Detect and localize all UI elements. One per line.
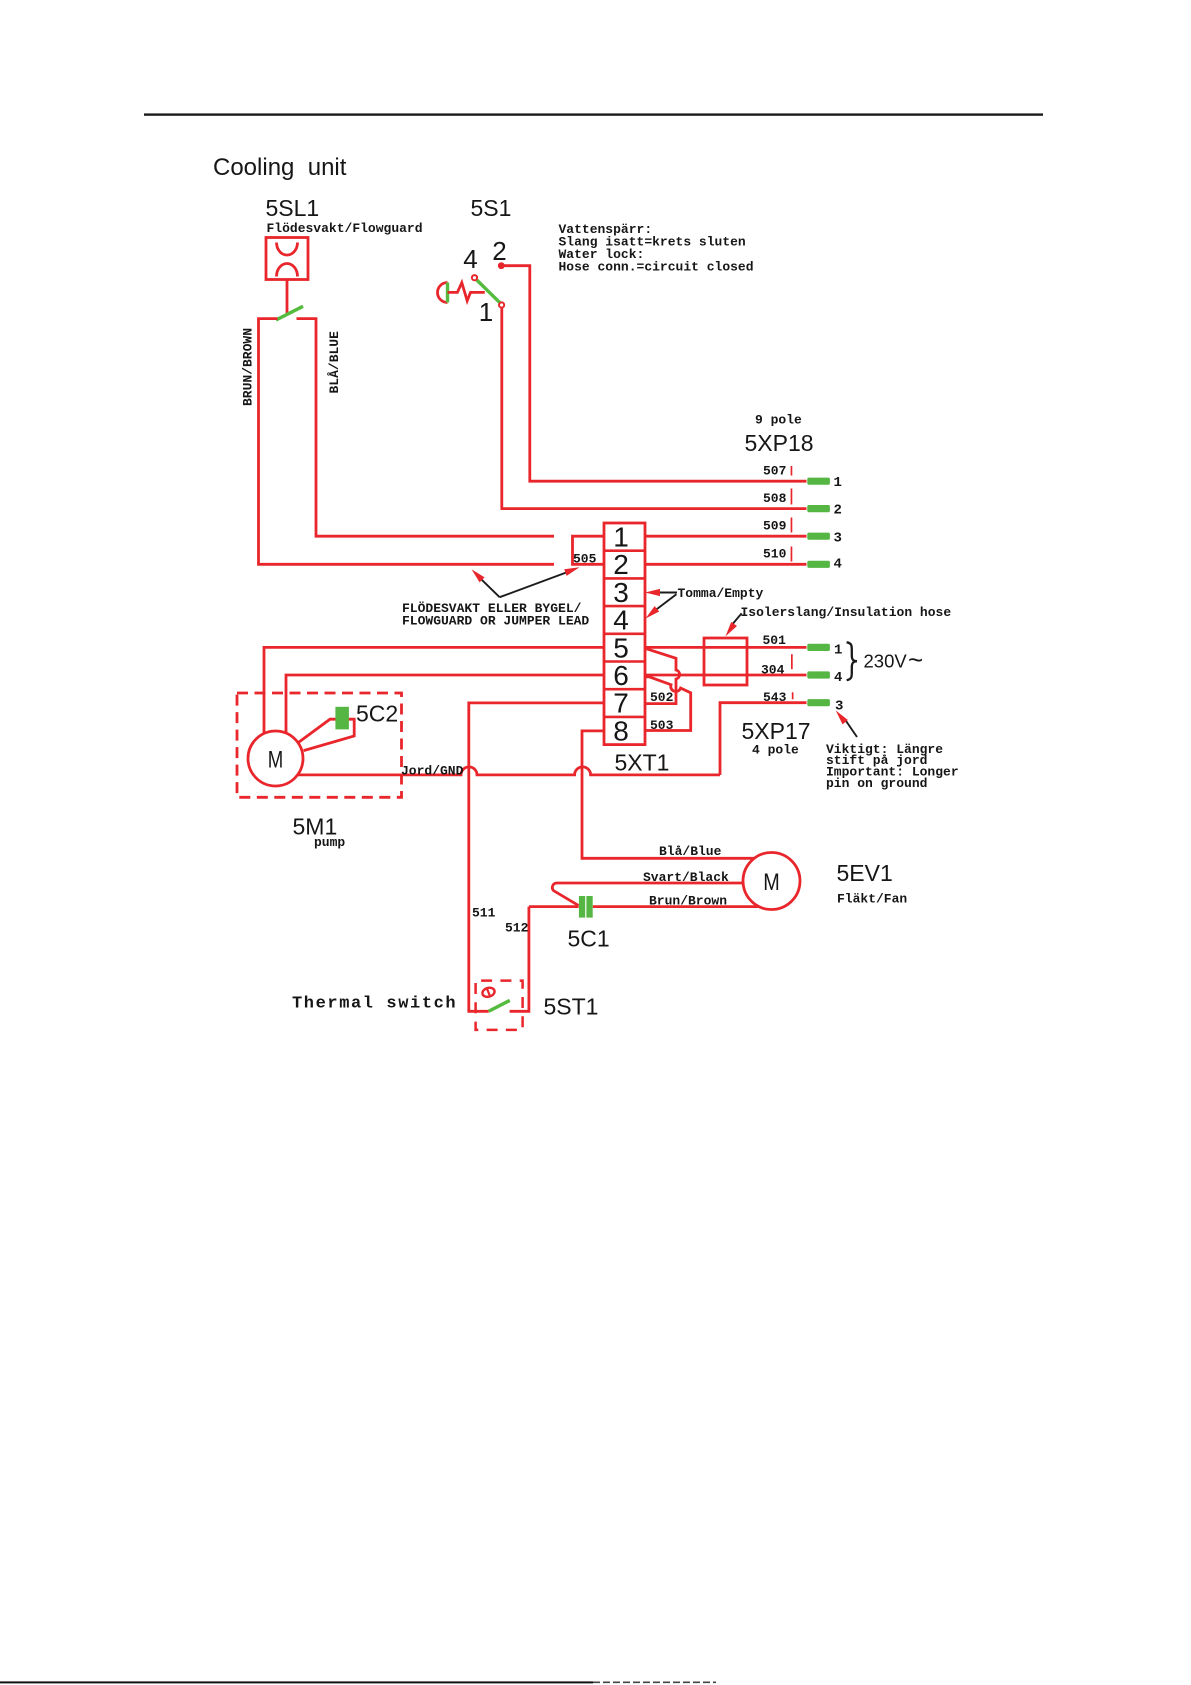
svg-text:4: 4 [613,605,629,636]
svg-text:5C2: 5C2 [356,701,398,727]
svg-text:M: M [763,869,780,896]
svg-text:Svart/Black: Svart/Black [643,870,729,885]
svg-text:FLOWGUARD OR JUMPER LEAD: FLOWGUARD OR JUMPER LEAD [402,613,589,628]
svg-text:Tomma/Empty: Tomma/Empty [678,586,764,601]
svg-text:511: 511 [472,906,496,921]
svg-text:505: 505 [573,552,597,567]
svg-text:5C1: 5C1 [568,926,610,952]
svg-text:BLÅ/BLUE: BLÅ/BLUE [327,331,342,394]
svg-text:Thermal switch: Thermal switch [292,994,457,1013]
svg-text:Brun/Brown: Brun/Brown [649,894,727,909]
svg-text:pump: pump [314,835,345,850]
svg-text:1: 1 [479,297,493,327]
svg-text:4 pole: 4 pole [752,742,799,757]
svg-text:5: 5 [613,632,629,663]
svg-text:2: 2 [834,503,842,519]
svg-text:1: 1 [834,475,842,491]
svg-text:4: 4 [834,557,842,573]
svg-text:507: 507 [763,463,786,478]
svg-text:Flödesvakt/Flowguard: Flödesvakt/Flowguard [267,221,423,236]
svg-text:Cooling unit: Cooling unit [213,154,347,181]
svg-text:7: 7 [613,688,629,719]
svg-text:304: 304 [761,663,785,678]
svg-text:8: 8 [613,715,629,746]
svg-text:4: 4 [463,244,477,274]
svg-text:509: 509 [763,518,787,533]
svg-text:5S1: 5S1 [471,195,512,221]
svg-text:Fläkt/Fan: Fläkt/Fan [837,892,907,907]
svg-text:510: 510 [763,546,787,561]
svg-text:~: ~ [908,645,923,675]
svg-text:3: 3 [613,577,629,608]
svg-text:5XT1: 5XT1 [615,750,670,776]
svg-text:503: 503 [650,718,674,733]
svg-text:5XP17: 5XP17 [742,718,811,744]
svg-text:3: 3 [834,531,842,547]
svg-text:6: 6 [613,660,629,691]
svg-text:5ST1: 5ST1 [544,994,599,1020]
svg-text:2: 2 [492,236,506,266]
svg-text:501: 501 [763,633,787,648]
svg-text:3: 3 [835,699,843,715]
svg-text:M: M [268,747,284,774]
svg-text:5XP18: 5XP18 [745,430,814,456]
svg-text:230V: 230V [864,651,908,672]
svg-text:2: 2 [613,549,629,580]
svg-text:9 pole: 9 pole [755,413,802,428]
svg-text:BRUN/BROWN: BRUN/BROWN [241,328,256,406]
svg-text:1: 1 [613,522,629,553]
svg-text:4: 4 [834,670,842,686]
svg-text:508: 508 [763,491,787,506]
svg-text:502: 502 [650,690,674,705]
svg-text:Hose conn.=circuit closed: Hose conn.=circuit closed [559,260,754,275]
svg-text:5EV1: 5EV1 [837,860,893,886]
svg-text:1: 1 [834,643,842,659]
svg-text:Blå/Blue: Blå/Blue [659,844,722,859]
svg-text:543: 543 [763,690,787,705]
svg-text:512: 512 [505,921,529,936]
svg-text:Jord/GND: Jord/GND [401,764,464,779]
svg-text:5SL1: 5SL1 [266,195,320,221]
svg-text:pin on ground: pin on ground [826,776,927,791]
svg-text:Isolerslang/Insulation hose: Isolerslang/Insulation hose [741,605,952,620]
